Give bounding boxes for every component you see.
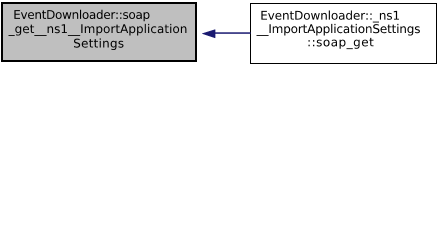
call edge shaft (midnightblue) [214,32,251,34]
label line 3 of grey node: Settings [74,38,124,50]
label line 2 of white node: __ImportApplicationSettings [257,24,420,36]
label line 1 of white node: EventDownloader::_ns1 [261,11,399,23]
node box: EventDownloader::_ns1__ImportApplicationSettings::soap_get [250,3,437,64]
label line 1 of grey node: EventDownloader::soap [14,10,149,22]
node box: EventDownloader::soap_get__ns1__ImportApplicationSettings (current node, grey fill) [1,2,197,62]
label line 3 of white node: ::soap_get [309,38,374,49]
call edge arrowhead (midnightblue) [202,30,215,38]
label line 2 of grey node: _get__ns1__ImportApplication [9,24,187,36]
